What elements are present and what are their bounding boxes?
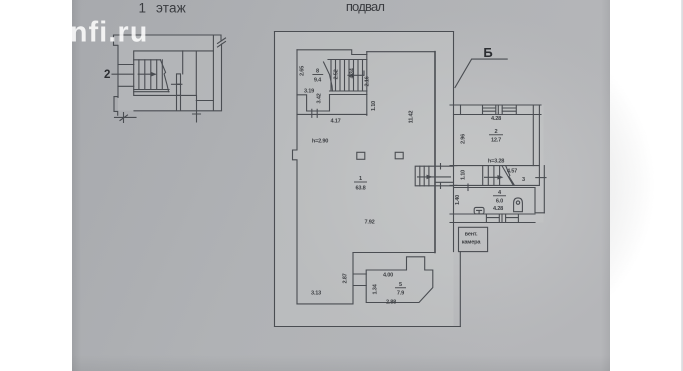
bottom vignette	[72, 355, 610, 371]
corridor (room 3)	[454, 166, 540, 186]
svg-text:3.42: 3.42	[317, 93, 323, 103]
room 5 outline	[366, 257, 433, 303]
west inner wall with notch	[293, 50, 298, 304]
stair bottom double line	[134, 90, 169, 92]
passage lower line	[435, 181, 454, 183]
plan paper interior (left plan)	[118, 36, 221, 111]
svg-text:4.28: 4.28	[493, 206, 503, 212]
leader lines left of room 5	[353, 274, 366, 286]
stair bottom double line	[330, 91, 367, 95]
stair direction arrow	[138, 73, 155, 75]
svg-text:1: 1	[359, 176, 362, 182]
svg-text:2: 2	[104, 69, 110, 81]
svg-text:11.42: 11.42	[409, 111, 415, 124]
window bottom-right	[506, 214, 519, 222]
svg-text:2.16: 2.16	[365, 76, 371, 86]
plan paper interior (annex)	[454, 105, 544, 223]
passage hall to annex box	[415, 166, 453, 186]
scan left edge shadow	[72, 0, 81, 371]
top wall line with break	[114, 34, 222, 36]
svg-text:4.17: 4.17	[330, 119, 340, 125]
stair room box	[134, 51, 214, 96]
svg-text:2.65: 2.65	[300, 66, 306, 76]
treads top line	[134, 59, 161, 61]
room 8 stair treads	[331, 60, 363, 92]
top-right hall edge	[367, 51, 435, 53]
svg-text:12.7: 12.7	[491, 138, 501, 144]
passage stair treads	[420, 166, 429, 186]
plan paper interior (basement)	[275, 32, 454, 327]
scan background	[72, 0, 610, 371]
inner landing wall	[182, 51, 184, 74]
dimension ticks on annex west boundary	[450, 105, 457, 223]
basement outer boundary southeast wall	[459, 252, 461, 327]
svg-text:Б: Б	[483, 45, 492, 60]
svg-text:8: 8	[316, 69, 319, 75]
svg-text:1.10: 1.10	[461, 170, 467, 180]
basement outer boundary west wall	[274, 32, 276, 327]
break line across stair	[324, 62, 333, 91]
svg-text:3.13: 3.13	[311, 291, 321, 297]
right wall double lines	[213, 35, 221, 111]
stair arrow	[348, 71, 364, 75]
svg-text:2.52: 2.52	[334, 69, 340, 79]
svg-text:4.34: 4.34	[350, 67, 356, 78]
basement outer boundary east wall	[453, 32, 455, 252]
passage arrowhead	[427, 175, 433, 180]
corridor stair treads	[483, 166, 500, 186]
svg-text:2.96: 2.96	[461, 134, 467, 144]
scan right edge shadow	[601, 0, 610, 371]
svg-text:4.57: 4.57	[507, 169, 517, 175]
fraction line room 8	[312, 73, 323, 75]
svg-text:3: 3	[522, 177, 525, 183]
stair break zigzag	[160, 60, 168, 92]
column 1 in hall	[357, 152, 365, 159]
svg-text:4.28: 4.28	[491, 116, 501, 122]
svg-text:7.9: 7.9	[397, 291, 404, 297]
room 4 east wall	[535, 188, 544, 213]
toilet icon	[514, 198, 523, 212]
shaft below box	[177, 95, 181, 110]
fraction line room 5	[395, 287, 406, 289]
svg-text:камера: камера	[462, 240, 482, 246]
svg-text:6.0: 6.0	[496, 199, 503, 205]
break slash bottom-left	[120, 113, 128, 123]
window bottom-left	[486, 214, 499, 222]
basement outer boundary top wall	[275, 31, 454, 33]
svg-text:1: 1	[139, 1, 147, 16]
room 8 stair top line	[328, 59, 367, 61]
hall top-left edge	[297, 113, 367, 115]
room 8 top edge + step	[297, 50, 367, 55]
fraction line room 2	[489, 134, 503, 136]
bottom-left protrusion	[114, 97, 118, 116]
passage ticks	[440, 164, 442, 189]
svg-text:1.34: 1.34	[373, 283, 379, 294]
Б callout line	[455, 59, 507, 87]
svg-text:подвал: подвал	[346, 0, 385, 14]
corridor winders	[502, 166, 514, 185]
hall bottom west	[297, 253, 353, 304]
room 4 top	[454, 187, 536, 189]
pier between top windows	[498, 105, 502, 115]
wall east of room 8	[366, 52, 368, 116]
window top-right	[502, 105, 516, 115]
fraction line room 1	[354, 181, 367, 183]
door jamb detail	[177, 74, 181, 84]
below-plan vertical with tick	[193, 95, 201, 122]
break symbol top right	[218, 35, 226, 47]
door ticks	[312, 109, 317, 117]
svg-text:2: 2	[495, 129, 498, 135]
passage arrow line	[418, 176, 451, 178]
svg-text:h=3.28: h=3.28	[488, 159, 504, 165]
svg-text:nfi.ru: nfi.ru	[70, 17, 148, 49]
svg-text:этаж: этаж	[156, 1, 186, 16]
hall bottom east	[353, 252, 435, 254]
svg-text:7.92: 7.92	[364, 220, 374, 226]
top wall band inner line	[454, 114, 542, 116]
faint right edge line	[681, 0, 683, 371]
svg-text:63.8: 63.8	[355, 186, 365, 192]
room 2 east walls	[533, 105, 539, 166]
svg-text:3.19: 3.19	[304, 89, 314, 95]
top wall band outer line	[454, 104, 542, 106]
window top-left	[483, 105, 496, 115]
left wall	[114, 35, 119, 98]
stair treads	[139, 60, 162, 90]
svg-text:вент.: вент.	[465, 232, 478, 238]
basement outer boundary bottom wall	[275, 326, 461, 328]
landing bottom line	[196, 100, 213, 102]
leader lines from label 2	[112, 65, 134, 87]
room 4 bottom band	[454, 214, 536, 223]
east inner wall (interrupted by passage)	[434, 52, 436, 253]
svg-text:2.87: 2.87	[343, 273, 349, 283]
column 2 in hall	[395, 152, 403, 159]
vestibule below room 8	[297, 95, 330, 112]
pier between windows	[501, 214, 503, 222]
band cell at NW	[460, 105, 462, 115]
bright scan zone	[275, 10, 655, 360]
fraction line room 4	[493, 195, 506, 197]
svg-text:9.4: 9.4	[314, 78, 322, 84]
sink icon	[474, 207, 484, 214]
svg-text:1.40: 1.40	[455, 195, 461, 205]
svg-text:1.10: 1.10	[371, 101, 377, 111]
svg-text:h=2.90: h=2.90	[312, 139, 328, 145]
svg-text:4.00: 4.00	[383, 273, 393, 279]
bottom line	[134, 110, 222, 112]
svg-text:2.88: 2.88	[386, 299, 396, 305]
vent chamber box	[459, 227, 488, 251]
corridor arrow	[485, 176, 500, 178]
svg-text:5: 5	[399, 282, 402, 288]
